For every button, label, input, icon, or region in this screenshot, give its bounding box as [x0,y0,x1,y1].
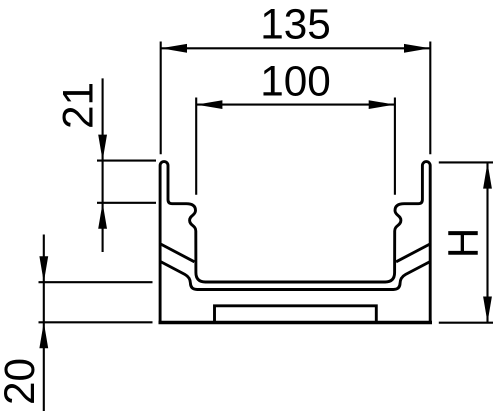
arrow down 21 [98,135,107,161]
bottom outer line [159,321,433,325]
svg-text:21: 21 [55,82,102,129]
left upper diagonal web [161,244,195,262]
svg-text:20: 20 [0,358,43,405]
arrow right of 135 [404,44,430,53]
arrow down H [483,297,492,323]
foot recess rectangle [215,306,377,322]
extension line 20 bottom [39,321,153,323]
extension line 100 right [394,98,396,195]
arrow down 20 [39,256,48,282]
extension line H top [439,161,493,163]
extension line 100 left [195,98,197,195]
svg-text:H: H [440,228,487,259]
extension line H bottom [439,322,493,324]
dimension line 20 [43,235,45,412]
extension line 21 bottom [97,202,156,204]
arrow up 20 [39,322,48,348]
arrow up H [483,163,492,189]
extension line 135 right [429,42,431,155]
channel profile outline (outer walls, top caps, ledges, anchoring notches, U flume) [160,162,430,322]
extension line 21 top [97,160,156,162]
dimension line 100 [196,104,395,106]
arrow right of 100 [369,100,395,109]
right upper diagonal web [396,244,430,262]
arrow left of 135 [161,44,187,53]
arrow up 21 [98,203,107,229]
extension line 20 top [39,281,153,283]
arrow left of 100 [196,100,222,109]
dimension line 135 [161,47,431,49]
extension line 135 left [160,42,162,155]
svg-text:135: 135 [260,1,331,48]
dimension line 21 [102,78,104,252]
svg-text:100: 100 [260,58,331,105]
dimension line H [486,162,488,322]
lower diagonal web and flume underside [161,262,430,290]
